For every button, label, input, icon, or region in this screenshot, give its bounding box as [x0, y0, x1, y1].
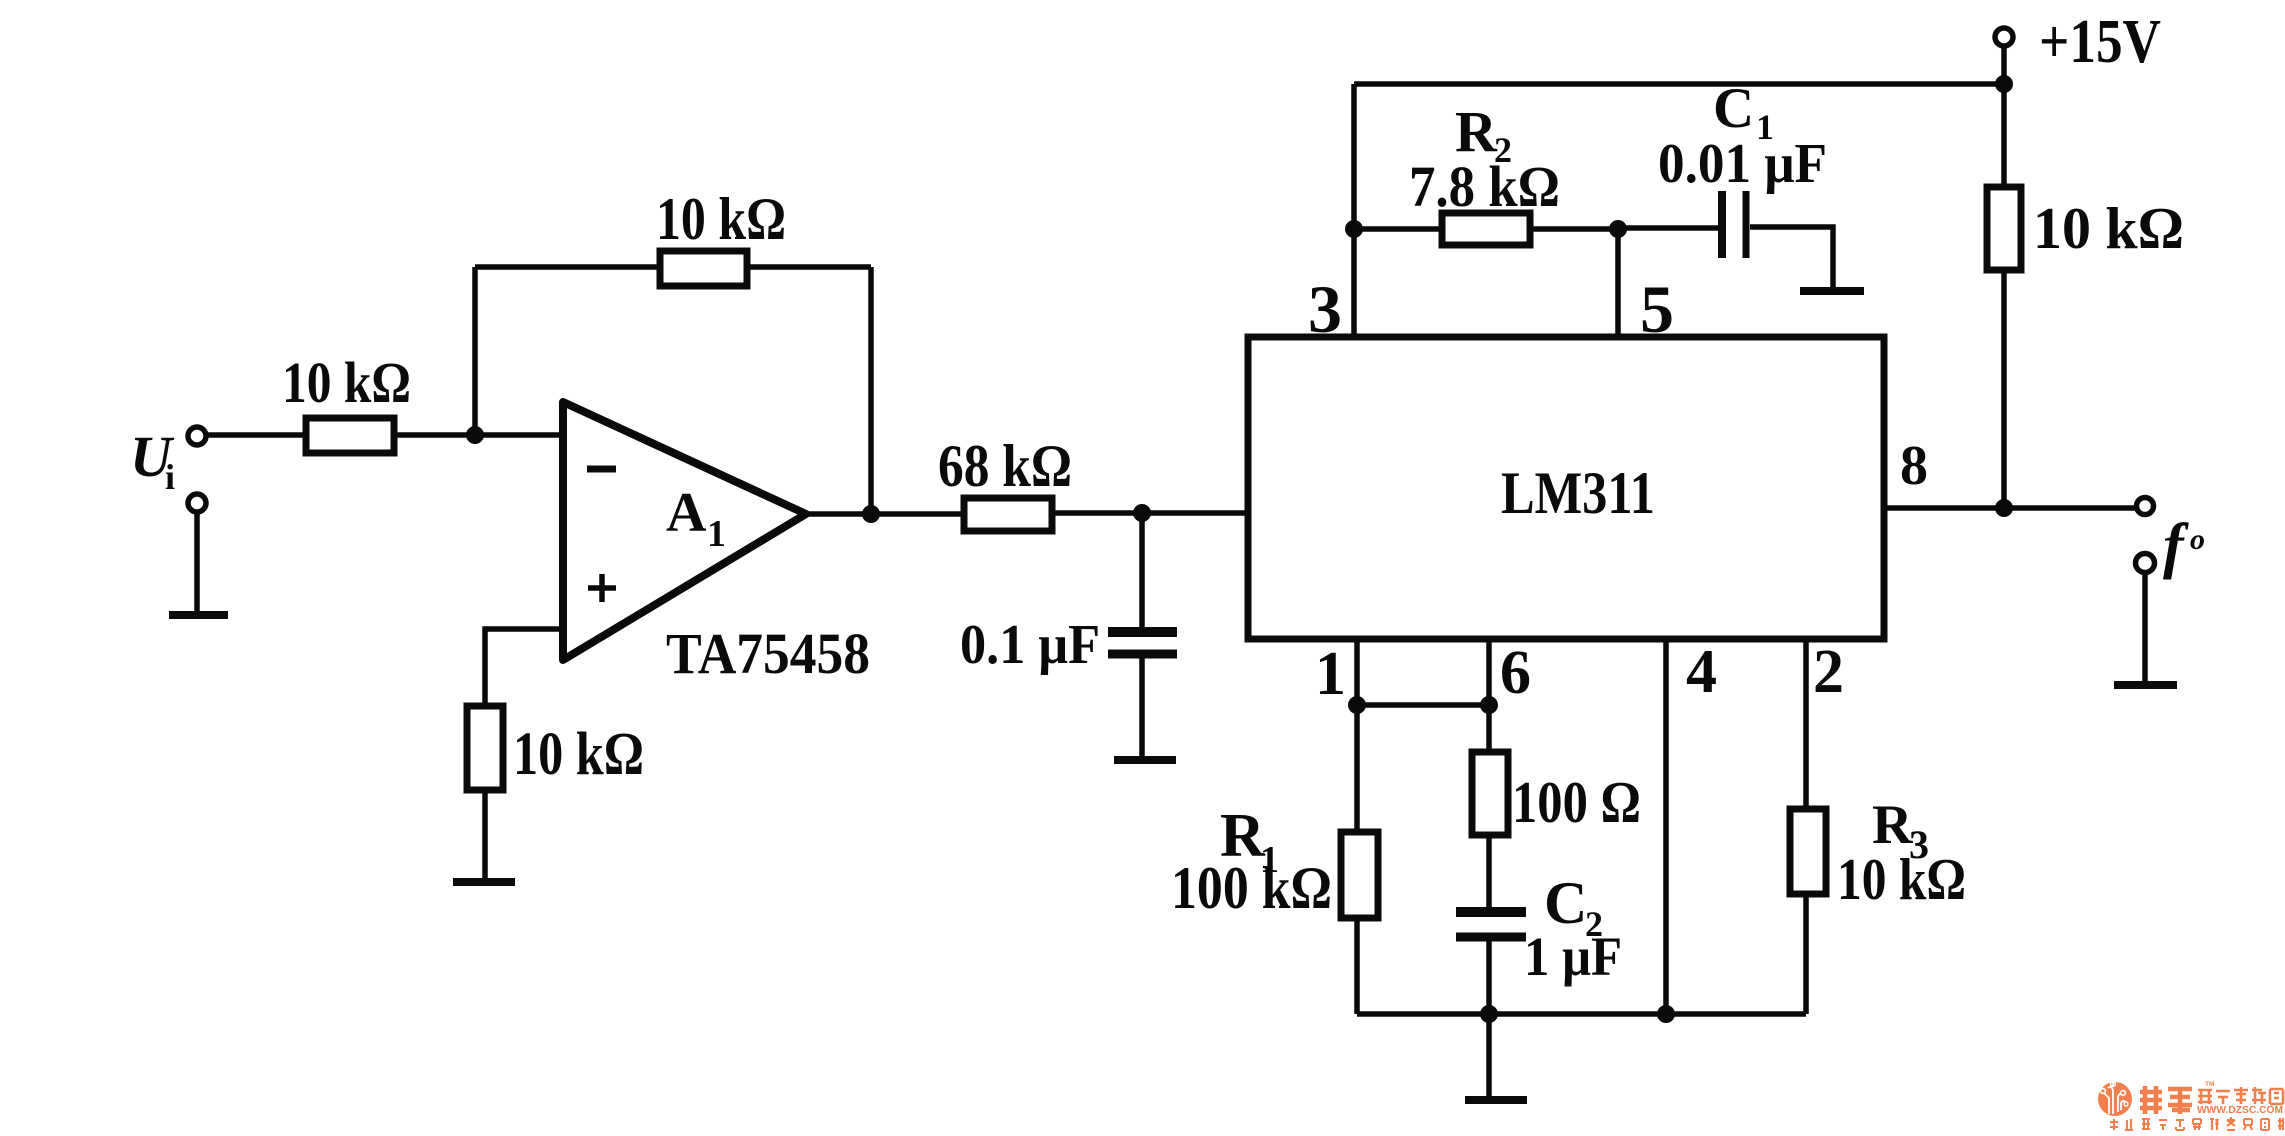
wire pin1 to pin6 [1357, 702, 1489, 708]
op-amp minus sign [587, 466, 616, 473]
wire R3 to rail [1803, 893, 1809, 1014]
svg-text:0.01 μF: 0.01 μF [1658, 133, 1827, 195]
op-amp A1 [563, 402, 806, 660]
resistor 68k [964, 498, 1052, 531]
svg-text:+15V: +15V [2039, 8, 2161, 76]
svg-text:1: 1 [707, 513, 726, 555]
capacitor C1 0.01uF [1718, 191, 1726, 258]
pin 2 wire [1803, 639, 1809, 810]
terminal +15V [1995, 28, 2013, 46]
power rail top [1354, 81, 2004, 87]
watermark logo circle [2098, 1082, 2132, 1116]
wire op-amp output [806, 511, 965, 517]
svg-text:6: 6 [1500, 639, 1531, 707]
ground input [169, 611, 228, 619]
svg-text:1 μF: 1 μF [1524, 926, 1622, 987]
resistor 10k input [306, 418, 394, 453]
svg-text:4: 4 [1686, 638, 1717, 706]
wire resistor to ground [482, 788, 488, 880]
ground C1 [1800, 287, 1864, 295]
ground fo [2114, 681, 2177, 689]
watermark small chinese electronic market [2198, 1087, 2283, 1104]
svg-text:1: 1 [1315, 640, 1346, 708]
pin 6 wire [1486, 639, 1492, 751]
resistor 10k plus input [467, 706, 503, 790]
wire feedback right vertical [868, 267, 874, 514]
capacitor 0.1uF [1108, 627, 1177, 637]
svg-text:100 kΩ: 100 kΩ [1171, 855, 1332, 921]
svg-text:LM311: LM311 [1501, 460, 1655, 526]
resistor 10k feedback [660, 251, 747, 286]
svg-text:10 kΩ: 10 kΩ [513, 721, 644, 788]
capacitor C2 [1456, 907, 1526, 917]
svg-text:68 kΩ: 68 kΩ [938, 433, 1072, 499]
IC LM311 box [1248, 337, 1884, 639]
resistor 10k pullup [1987, 187, 2021, 270]
pin 5 wire vertical [1615, 229, 1621, 337]
node rail pin4 junction [1657, 1005, 1675, 1023]
wire feedback left vertical [472, 267, 478, 435]
resistor 100 Ohm [1472, 752, 1508, 835]
node pin5 junction [1609, 220, 1627, 238]
pin 8 wire [1884, 505, 2135, 511]
node pin1 junction [1348, 696, 1366, 714]
wire R2 right [1528, 226, 1618, 232]
wire C2 to rail [1486, 941, 1492, 1014]
watermark weiku characters [2140, 1086, 2192, 1114]
wire fo lower to ground [2142, 575, 2148, 683]
node cap junction [1133, 504, 1151, 522]
resistor R3 10k [1790, 809, 1826, 894]
wire R2 left [1354, 226, 1443, 232]
ground 0.1uF [1114, 756, 1176, 764]
ground bottom [1465, 1096, 1527, 1104]
terminal fo lower [2136, 554, 2155, 573]
node rail junction [1995, 75, 2013, 93]
svg-text:o: o [2190, 523, 2205, 556]
wire rail to ground [1486, 1014, 1492, 1098]
svg-text:C: C [1713, 77, 1754, 140]
svg-text:2: 2 [1813, 638, 1844, 706]
wire lower terminal to ground [194, 512, 200, 613]
wire C1 right to ground [1750, 227, 1833, 289]
wire input resistor to op-amp inverting input [393, 432, 563, 438]
svg-text:A: A [666, 482, 707, 544]
svg-text:10 kΩ: 10 kΩ [2033, 195, 2184, 261]
wire R1 to rail [1354, 916, 1360, 1014]
resistor R1 100k [1341, 832, 1378, 918]
svg-text:5: 5 [1640, 271, 1674, 347]
svg-text:10 kΩ: 10 kΩ [656, 186, 786, 252]
terminal fo upper [2137, 498, 2154, 515]
svg-text:8: 8 [1900, 435, 1928, 497]
wire 100 Ohm to C2 [1486, 835, 1492, 907]
bottom rail [1357, 1011, 1806, 1017]
wire +15V down [2001, 45, 2007, 186]
terminal Ui lower [188, 494, 206, 512]
svg-text:i: i [165, 457, 175, 497]
wire Ui to input resistor [208, 432, 308, 438]
svg-text:WWW.DZSC.COM: WWW.DZSC.COM [2197, 1105, 2283, 1116]
node pin6 junction [1480, 696, 1498, 714]
wire op-amp plus input [485, 629, 563, 707]
wire pullup down to pin8 wire [2001, 268, 2007, 508]
node pin8 junction [1995, 499, 2013, 517]
node output junction [862, 505, 880, 523]
svg-text:10 kΩ: 10 kΩ [1837, 846, 1966, 912]
wire down to cap 0.1uF [1139, 513, 1145, 628]
svg-text:TM: TM [2205, 1081, 2214, 1088]
ground plus input [453, 878, 515, 886]
watermark slogan [2110, 1117, 2283, 1130]
node rail C2 junction [1480, 1005, 1498, 1023]
pin 1 wire [1354, 639, 1360, 833]
svg-text:10 kΩ: 10 kΩ [282, 350, 411, 415]
wire cap to ground [1139, 658, 1145, 757]
svg-text:7.8 kΩ: 7.8 kΩ [1409, 154, 1560, 219]
wire pin5 to C1 [1618, 225, 1719, 231]
pin 4 wire [1663, 639, 1669, 1014]
op-amp plus sign [588, 585, 616, 591]
terminal Ui upper [188, 427, 206, 445]
node junction inverting input [466, 426, 484, 444]
node R2 left junction [1345, 220, 1363, 238]
svg-text:0.1 μF: 0.1 μF [960, 614, 1100, 676]
resistor R2 7.8k [1442, 213, 1530, 245]
wire feedback top left [475, 264, 662, 270]
svg-text:100 Ω: 100 Ω [1512, 769, 1641, 835]
svg-text:TA75458: TA75458 [666, 621, 870, 686]
wire feedback top right [745, 264, 871, 270]
wire 68k to LM311 [1050, 510, 1248, 516]
pin 3 wire vertical [1351, 84, 1357, 337]
svg-text:3: 3 [1308, 271, 1342, 347]
